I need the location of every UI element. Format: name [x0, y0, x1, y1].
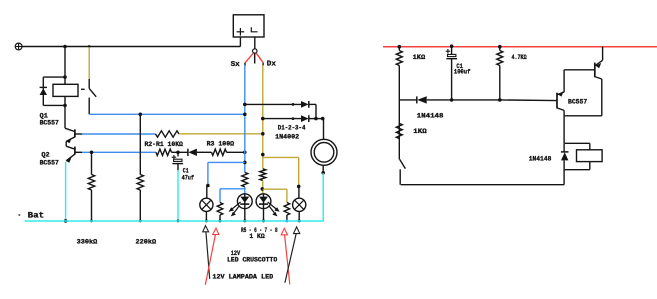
label Dx: [267, 61, 277, 69]
wire lamp1 top leg: [206, 186, 208, 199]
indicator lamp (dash repeater) double circle: [311, 139, 337, 165]
label D1-2-3-4: [278, 124, 306, 131]
arrow black (lamp1 pointer): [203, 226, 210, 279]
transistor Q4 (second, PNP): [595, 60, 603, 79]
label 1 KΩ: [249, 233, 264, 240]
wire D2 to horn node: [309, 117, 325, 121]
label C1 (right): [456, 63, 462, 70]
node plus-terminal (battery +): [15, 43, 22, 50]
wire diode to R3: [197, 151, 212, 153]
wire 220k to -Bat: [139, 190, 142, 222]
wire turn-switch feed (from +12V): [88, 47, 90, 79]
svg-text:-: -: [18, 210, 21, 220]
switch blade Sx (red): [245, 53, 253, 63]
wire Q3 emitter to Q4 base: [564, 70, 595, 92]
node junction top rail / turn switch feed: [88, 45, 91, 48]
svg-text:4.7KΩ: 4.7KΩ: [512, 54, 527, 61]
label 1N4002: [275, 133, 299, 140]
label C1: [183, 168, 189, 175]
diode 1N4148 (horizontal, pointing left): [417, 96, 427, 103]
box L (turn-signal lever unit): [233, 15, 264, 37]
wire 330k to -Bat: [90, 190, 93, 222]
svg-text:1KΩ: 1KΩ: [413, 128, 426, 135]
switch pivot circle: [253, 49, 257, 53]
svg-text:100uf: 100uf: [454, 69, 471, 76]
diode D2 (1N4002): [301, 115, 309, 122]
wire lamp2 branch (olive): [263, 157, 299, 186]
wire R4.7k bottom leg: [499, 66, 501, 100]
node junction rail / R1k: [398, 45, 402, 49]
label + inside box: [237, 28, 245, 36]
wire R2 to C1/diode node: [172, 151, 188, 153]
resistor R2 (Q2 base 10K): [156, 149, 172, 155]
svg-text:1 KΩ: 1 KΩ: [249, 233, 264, 240]
svg-text:LED CRUSCOTTO: LED CRUSCOTTO: [227, 257, 277, 264]
label 12V: [231, 250, 240, 257]
wire switch to bottom rail: [399, 169, 401, 184]
node junction rail / R4.7k: [498, 45, 502, 49]
label 4.7KΩ: [512, 54, 527, 61]
resistor R on Dx line (LED dropper): [260, 169, 266, 181]
svg-text:Dx: Dx: [267, 61, 277, 69]
label R2-R1 10KΩ: [145, 141, 183, 148]
wire lamp2 bottom leg: [298, 211, 301, 222]
resistor R6 (parallel LED2): [284, 203, 290, 216]
wire lamp1 bottom leg: [205, 211, 208, 222]
switch (test button): [400, 159, 406, 168]
svg-text:1N4148: 1N4148: [417, 113, 444, 120]
svg-text:330kΩ: 330kΩ: [77, 239, 98, 246]
wire +12V rail (red): [383, 46, 657, 48]
arrow black (lamp2 pointer): [285, 227, 300, 283]
node junction 330k on Q2 base: [90, 151, 94, 155]
wire R3 to Sx line: [227, 151, 247, 155]
diode D5 (to R3, pointing left): [188, 149, 197, 156]
wire cap node to R4.7k node: [452, 98, 502, 102]
wire R to LED2: [262, 181, 264, 194]
wire Q1 base olive to Dx line: [179, 133, 263, 135]
resistor 4.7KΩ: [497, 51, 503, 66]
wire D2 line: [263, 117, 301, 120]
wire Q3 collector vertical: [563, 110, 565, 143]
wire diode branch: [563, 143, 565, 152]
wire Q4 collector loop: [565, 79, 602, 116]
wire Sx line (blue vertical): [244, 65, 246, 172]
label 1KΩ (lower): [413, 128, 426, 135]
label L inside box: [251, 27, 257, 32]
wire -Bat rail (cyan): [25, 220, 324, 222]
svg-text:D1-2-3-4: D1-2-3-4: [278, 124, 306, 131]
wire R6 parallel branch (olive): [263, 189, 287, 202]
svg-text:Bat: Bat: [28, 210, 44, 220]
node junction Sx / flasher blue wire: [243, 113, 247, 117]
wire Q4 emitter to +12V rail: [602, 47, 604, 61]
transistor Q1 BC557: [65, 128, 82, 143]
resistor R5 (parallel LED1): [217, 203, 223, 216]
svg-text:Q2: Q2: [41, 151, 49, 158]
diode D1 (1N4002): [301, 101, 309, 108]
label LED CRUSCOTTO: [227, 257, 277, 264]
wire relay trunk vertical: [64, 47, 66, 129]
wire R5 parallel branch (blue): [220, 189, 245, 203]
relay K2 coil: [577, 150, 603, 162]
relay K1 coil: [53, 84, 78, 96]
node junction Dx / olive Q1-base wire: [261, 132, 265, 136]
wire R4.7k top leg: [499, 47, 501, 51]
label BC557 (Q2): [40, 160, 59, 167]
resistor R1 (Q1 base 10K): [156, 131, 180, 137]
label 47uf: [182, 174, 194, 181]
node junction rail / C1: [450, 44, 454, 48]
node junction lamp2 top: [297, 185, 301, 189]
wire R to LED1: [244, 187, 246, 194]
svg-text:Sx: Sx: [231, 61, 241, 69]
svg-text:BC557: BC557: [568, 99, 587, 106]
label 330kΩ: [77, 239, 98, 246]
node junction Sx / D1 line: [243, 103, 247, 107]
label 1N4148 (horizontal): [417, 113, 444, 120]
wire base rail to Q3: [500, 99, 557, 102]
wire relay K2 bracket: [565, 143, 590, 169]
wire top supply rail: [22, 46, 240, 48]
relay K1 actuator dash: [81, 88, 85, 90]
node junction LED2 top: [261, 187, 265, 191]
wire D1 to D2 line: [309, 104, 316, 118]
wire R1k top leg: [398, 47, 400, 51]
wire Q1 collector to Q2: [66, 141, 75, 149]
wire R1k to junction/switch: [398, 66, 400, 160]
wire below indicator: [321, 165, 325, 174]
svg-text:12V LAMPADA LED: 12V LAMPADA LED: [212, 274, 273, 281]
wire relay contact pole: [88, 98, 90, 115]
svg-text:BC557: BC557: [40, 160, 59, 167]
wire diode to cap node: [427, 98, 454, 102]
node junction Sx / lamp1 branch: [243, 161, 247, 165]
label 1KΩ (top): [413, 54, 426, 61]
wire box to switch pivot: [254, 38, 256, 49]
svg-text:R2-R1 10KΩ: R2-R1 10KΩ: [145, 141, 183, 148]
node junction lamp1 top: [206, 184, 210, 188]
wire horn feed vertical: [323, 119, 325, 140]
LED LED1 (left turn, cruscotto): [229, 194, 253, 223]
label Q2: [41, 151, 49, 158]
wire D1 line: [245, 103, 301, 106]
resistor 1KΩ (lower): [396, 123, 402, 138]
svg-text:47uf: 47uf: [182, 174, 194, 181]
wire C1 to -Bat (cyan): [177, 170, 180, 222]
label - Bat: [18, 210, 44, 220]
svg-text:1KΩ: 1KΩ: [413, 54, 426, 61]
resistor R on Sx line (LED dropper): [242, 172, 248, 186]
switch pole stub: [254, 53, 256, 63]
label 1N4148 (vertical): [529, 156, 552, 163]
wire relay bracket: [43, 75, 67, 107]
relay contact fixed: [88, 79, 90, 88]
lamp L2 (front indicator right): [293, 198, 306, 211]
wire box to top rail: [239, 37, 241, 47]
wire Q2 emitter to -Bat rail (cyan): [64, 162, 68, 223]
wire Q2 base (blue): [82, 151, 156, 153]
wire lamp2 top leg: [298, 186, 300, 198]
node junction Dx / D2 line: [261, 117, 265, 121]
svg-text:Q1: Q1: [40, 113, 48, 120]
svg-text:1N4002: 1N4002: [275, 133, 299, 140]
resistor R3 100Ω: [212, 149, 227, 155]
svg-text:R3 100Ω: R3 100Ω: [207, 140, 235, 147]
transistor Q3 BC557 (first): [557, 91, 564, 110]
node junction C1 top: [176, 151, 180, 155]
label 12V LAMPADA LED: [212, 274, 273, 281]
wire 330k leg: [91, 152, 93, 174]
arrow red (LED1 pointer): [205, 228, 219, 285]
capacitor C1 100uf: [446, 47, 457, 100]
wire R6 to -Bat: [285, 215, 288, 222]
label Sx: [231, 61, 241, 69]
resistor R 330kΩ: [88, 175, 94, 191]
wire flasher feed (blue) to Sx/Dx switch: [89, 113, 245, 115]
wire base rail horizontal: [399, 99, 417, 101]
wire Sx contact: [244, 63, 246, 66]
LED LED2 (right turn, cruscotto): [256, 194, 280, 223]
transistor Q2 BC557: [66, 147, 82, 163]
label BC557 (Q1): [40, 120, 59, 127]
label 100uf: [454, 69, 471, 76]
label Q1: [40, 113, 48, 120]
wire indicator to -Bat (cyan): [322, 173, 324, 221]
label 220kΩ: [136, 239, 157, 246]
node junction 220k on blue feed: [139, 113, 143, 117]
diode flyback across relay K1 coil: [40, 87, 47, 95]
arrow red (LED2 pointer): [281, 228, 290, 284]
node junction top rail / relay trunk: [63, 45, 67, 49]
wire Dx contact: [262, 63, 264, 66]
capacitor C1 47uf: [172, 152, 183, 170]
label R5 - 6 - 7 - 8: [241, 227, 278, 234]
svg-text:1N4148: 1N4148: [529, 156, 552, 163]
svg-text:220kΩ: 220kΩ: [136, 239, 157, 246]
node junction Dx / lamp2 branch: [261, 153, 265, 157]
svg-text:BC557: BC557: [40, 120, 59, 127]
switch blade Dx (red): [256, 53, 263, 63]
wire R5 to -Bat: [219, 215, 222, 222]
resistor R 220kΩ: [137, 175, 143, 191]
wire lamp1 branch (blue): [208, 162, 245, 185]
label R3 100Ω: [207, 140, 235, 147]
wire Dx line (olive vertical): [262, 65, 264, 169]
diode 1N4148 (vertical flyback): [561, 152, 569, 161]
wire diode to bottom: [563, 160, 565, 184]
lamp L1 (front indicator): [200, 198, 213, 211]
relay contact blade: [89, 88, 96, 96]
wire bottom return rail: [401, 184, 564, 186]
wire Q1 base (blue): [82, 133, 156, 135]
wire 220k leg: [139, 114, 141, 174]
resistor 1KΩ (top left): [396, 51, 402, 66]
label BC557 (right): [568, 99, 587, 106]
